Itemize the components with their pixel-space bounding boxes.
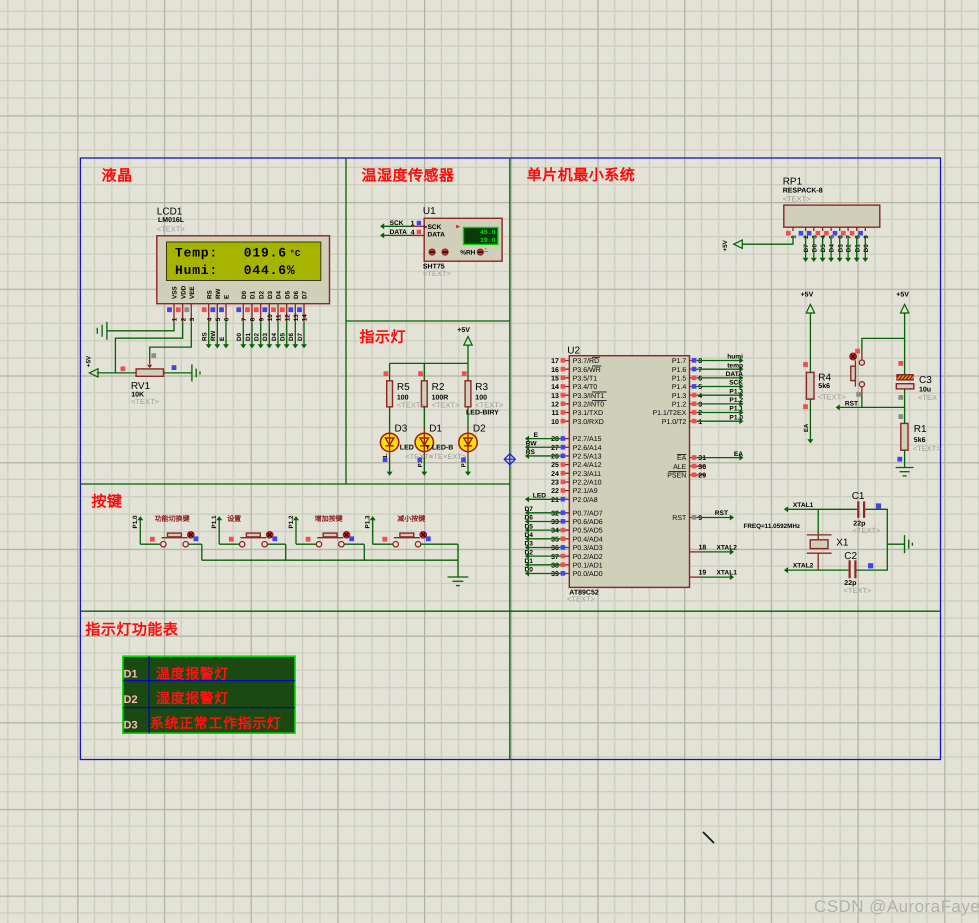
svg-text:4: 4 (698, 393, 702, 400)
svg-text:D5: D5 (525, 523, 534, 530)
wire: D1 cathode down with arrow (417, 452, 427, 476)
wire: LCD pin1 VSS to ground (107, 322, 174, 331)
svg-text:28: 28 (551, 436, 559, 443)
svg-text:D4: D4 (276, 290, 283, 299)
table row D1 temperature alarm (124, 666, 230, 682)
svg-text:D7: D7 (302, 290, 309, 299)
svg-text:26: 26 (551, 454, 559, 461)
wire: +5V to RV1 pin1 (97, 372, 136, 374)
svg-text:D1: D1 (124, 669, 138, 681)
svg-text:DATA: DATA (726, 371, 744, 378)
LED D2 (459, 433, 477, 451)
svg-text:7: 7 (698, 367, 702, 374)
svg-text:RS: RS (526, 449, 536, 456)
junction squares red above resistors (384, 371, 467, 376)
svg-text:系统正常工作指示灯: 系统正常工作指示灯 (150, 715, 281, 731)
svg-text:D3: D3 (395, 423, 408, 434)
svg-text:单片机最小系统: 单片机最小系统 (527, 166, 636, 184)
svg-text:ALE: ALE (673, 464, 687, 471)
svg-text:R2: R2 (432, 382, 445, 393)
svg-text:14: 14 (551, 384, 559, 391)
svg-text:E: E (219, 337, 226, 341)
svg-text:24: 24 (551, 471, 559, 478)
ground symbol right of crystal (right facing) (905, 535, 913, 553)
LCD pin name labels (rotated) VSS..D7 (172, 285, 309, 299)
wire: button 4 right terminal to ground bus drop (421, 544, 458, 560)
svg-text:R5: R5 (397, 382, 410, 393)
svg-text:P2.0/A8: P2.0/A8 (573, 496, 598, 504)
svg-text:1: 1 (791, 235, 798, 239)
svg-text:22: 22 (551, 488, 559, 495)
svg-text:RW: RW (210, 331, 217, 341)
svg-text:P1.1: P1.1 (729, 406, 743, 413)
button 2 actuator red circle (266, 532, 273, 539)
sensor mini display (464, 228, 498, 245)
svg-text:11: 11 (276, 314, 283, 321)
RP1 pin numbers 1-9 (rotated) (791, 235, 870, 239)
resistor R2 body (421, 381, 427, 407)
svg-text:humi: humi (727, 354, 743, 361)
svg-text:指示灯: 指示灯 (360, 329, 407, 346)
sensor screw circle 3 (477, 248, 488, 255)
junction square blue right of button 4 (426, 536, 431, 541)
LCD pin stubs 1-14 (174, 304, 304, 323)
ground symbol for buttons (448, 577, 469, 586)
wire: C1 right to corner down to C2 corner (857, 509, 888, 570)
wire: button 2 right terminal to ground bus drop (267, 544, 285, 560)
wire: D3 cathode down with arrow (382, 452, 392, 476)
svg-text:P0.2/AD2: P0.2/AD2 (573, 553, 603, 561)
MCU XTAL2 pin 18 with wire and net label (690, 544, 738, 555)
junction square red at RV1 left (121, 366, 126, 371)
svg-text:36: 36 (551, 545, 559, 552)
svg-text:7: 7 (241, 317, 248, 321)
C3 labels (918, 375, 937, 402)
junction square blue below D2 (461, 457, 466, 462)
svg-text:RS: RS (202, 332, 209, 341)
svg-text:17: 17 (551, 358, 559, 365)
junction square blue right of button 3 (349, 536, 354, 541)
wire: R3 to LED D2 (467, 407, 469, 434)
svg-text:29: 29 (698, 473, 706, 480)
svg-text:P3.2/INT0: P3.2/INT0 (573, 400, 605, 408)
svg-text:D5: D5 (280, 332, 287, 341)
svg-text:液晶: 液晶 (102, 168, 133, 185)
svg-text:D7: D7 (525, 506, 534, 513)
svg-text:功能切换键: 功能切换键 (155, 514, 190, 523)
svg-text:D2: D2 (254, 332, 261, 341)
svg-text:2: 2 (803, 235, 810, 239)
wire: LCD pin3 VEE to RV1 wiper (150, 322, 192, 358)
svg-text:E: E (534, 432, 539, 439)
svg-text:增加按键: 增加按键 (315, 514, 343, 523)
svg-text:VSS: VSS (172, 286, 179, 299)
svg-text:EA: EA (677, 455, 687, 462)
svg-text:P3.0/RXD: P3.0/RXD (573, 418, 604, 426)
push button 2 (240, 533, 268, 547)
svg-text:15: 15 (551, 375, 559, 382)
svg-text:P3.4/T0: P3.4/T0 (573, 383, 598, 391)
wire: button 1 right terminal to ground bus drop (188, 544, 201, 560)
button key 2 net P1.1 rotated label and wire arrow up (211, 515, 222, 544)
polarized capacitor C3 (896, 374, 914, 389)
svg-text:LED: LED (400, 445, 414, 452)
svg-text:Temp: 019.6: Temp: 019.6 (175, 246, 287, 261)
svg-text:45.0: 45.0 (480, 229, 496, 236)
sensor pointer mark (456, 225, 460, 229)
svg-text:P1.2: P1.2 (729, 397, 743, 404)
svg-text:XTAL2: XTAL2 (793, 563, 814, 570)
LCD green screen (167, 242, 321, 281)
svg-text:EA: EA (734, 451, 743, 458)
sensor pin DATA stub and wire with arrow (380, 232, 424, 238)
svg-text:5: 5 (215, 317, 222, 321)
svg-text:+5V: +5V (896, 292, 909, 299)
wire: branch to reset button top (862, 338, 905, 359)
resistor R5 body (387, 381, 393, 407)
svg-text:D6: D6 (288, 332, 295, 341)
svg-text:12: 12 (551, 401, 559, 408)
svg-text:16: 16 (551, 367, 559, 374)
svg-text:P1.0: P1.0 (132, 515, 139, 528)
svg-text:SCK: SCK (729, 380, 743, 387)
junction square blue below D1 (418, 457, 423, 462)
svg-text:RST: RST (672, 515, 687, 522)
wire: RV1 pin3 to ground (164, 372, 192, 374)
MCU left pins P2.0-P2.7 stubs, squares, numbers and labels (551, 435, 602, 504)
svg-text:温湿度传感器: 温湿度传感器 (362, 167, 456, 185)
svg-text:P3.6/WR: P3.6/WR (573, 366, 601, 374)
power +5V arrow above R4 (801, 292, 815, 313)
svg-text:D7: D7 (803, 244, 810, 253)
svg-text:P0.4/AD4: P0.4/AD4 (573, 535, 603, 543)
svg-text:13: 13 (551, 393, 559, 400)
junction square gray below C3 (898, 395, 903, 400)
svg-text:P2.5/A13: P2.5/A13 (573, 453, 602, 461)
svg-text:13: 13 (293, 314, 300, 322)
svg-text:D0: D0 (863, 244, 870, 253)
svg-text:37: 37 (551, 554, 559, 561)
svg-text:<TEXT>: <TEXT> (131, 397, 160, 406)
svg-text:6: 6 (698, 375, 702, 382)
svg-text:33: 33 (551, 519, 559, 526)
svg-text:D1: D1 (854, 244, 861, 253)
svg-text:1: 1 (411, 221, 415, 228)
svg-text:VDD: VDD (180, 285, 187, 299)
button 4 actuator red circle (420, 532, 427, 539)
RP1 pin stubs and squares (786, 227, 865, 235)
junction square red at sensor DATA (417, 230, 421, 234)
junction square red left of button 1 (150, 537, 155, 542)
svg-text:25: 25 (551, 462, 559, 469)
svg-text:3: 3 (698, 401, 702, 408)
mouse cursor mark (703, 832, 714, 843)
svg-text:LED: LED (533, 492, 546, 499)
svg-text:D1: D1 (525, 558, 534, 565)
net labels RS RW E D0-D7 (rotated) (202, 331, 304, 341)
svg-text:8: 8 (854, 235, 861, 239)
svg-text:<TEXT>: <TEXT> (397, 401, 426, 410)
svg-text:LM016L: LM016L (158, 217, 185, 224)
LED D3 (380, 433, 398, 451)
svg-text:P2.3/A11: P2.3/A11 (573, 470, 601, 478)
junction square red left of button 3 (306, 537, 311, 542)
svg-text:19: 19 (699, 570, 707, 577)
LCD pin state squares (167, 307, 302, 312)
junction square blue below D3 (383, 457, 388, 462)
svg-text:RP1: RP1 (783, 177, 803, 188)
svg-text:12: 12 (284, 314, 291, 322)
table row D2 humidity alarm (124, 690, 230, 706)
junction square gray above R1 (898, 414, 903, 419)
svg-text:35: 35 (551, 536, 559, 543)
button key 3 net P1.2 rotated label and wire arrow up (288, 515, 299, 544)
svg-text:39: 39 (551, 571, 559, 578)
svg-text:5: 5 (829, 235, 836, 239)
R1 labels (913, 424, 942, 453)
LED property text placeholders (405, 452, 467, 461)
svg-text:8: 8 (698, 358, 702, 365)
resistor R4 body (806, 372, 814, 399)
table 指示灯功能表 background and green border (123, 656, 295, 733)
svg-text:EA: EA (803, 423, 810, 432)
svg-text:P1.1/T2EX: P1.1/T2EX (652, 409, 686, 417)
svg-text:3: 3 (811, 235, 818, 239)
MCU PSEN pin 29 (667, 472, 706, 480)
crystal X1 (807, 535, 832, 570)
MCU U2 AT89C52 body (569, 356, 689, 588)
svg-text:<TEXT>: <TEXT> (818, 392, 847, 401)
svg-text:湿度报警灯: 湿度报警灯 (156, 690, 229, 706)
svg-text:14: 14 (302, 314, 309, 322)
resistor pack RP1 body (784, 205, 880, 227)
svg-text:<TEXT>: <TEXT> (475, 401, 504, 410)
svg-text:+5V: +5V (801, 292, 814, 299)
junction square red at reset button (855, 349, 860, 354)
ground symbol below R1 (896, 468, 914, 476)
svg-text:P1.3: P1.3 (672, 393, 687, 400)
svg-text:RST: RST (845, 400, 858, 407)
svg-text:P1.2: P1.2 (288, 515, 295, 528)
junction square blue right of button 1 (194, 536, 199, 541)
C1 labels (852, 491, 881, 535)
wire: C3 bottom through RST node to R1 (904, 389, 906, 424)
svg-text:27: 27 (551, 445, 559, 452)
junction square blue below R1 (897, 457, 902, 462)
wire: XTAL1 net with arrow to C1 (784, 506, 857, 512)
svg-text:9: 9 (258, 317, 265, 321)
svg-text:D2: D2 (846, 244, 853, 253)
wire: R2 to LED D1 (423, 407, 425, 434)
svg-text:设置: 设置 (227, 515, 241, 523)
svg-text:23: 23 (551, 480, 559, 487)
svg-text:+5V: +5V (722, 239, 729, 251)
svg-text:D6: D6 (525, 515, 534, 522)
svg-text:D2: D2 (124, 694, 138, 706)
wires: RP1 pins 2-9 to down arrows (803, 236, 869, 263)
svg-text:P0.6/AD6: P0.6/AD6 (573, 518, 603, 526)
svg-text:D1: D1 (250, 290, 257, 299)
sensor U1 SHT75 body (424, 218, 502, 261)
svg-text:D0: D0 (525, 567, 534, 574)
svg-text:D4: D4 (525, 532, 534, 539)
section divider vertical between sensor and MCU areas (509, 158, 511, 760)
svg-text:RW: RW (526, 440, 538, 447)
ground symbol at LCD VSS (left facing) (97, 322, 107, 340)
section divider vertical between LCD and sensor areas (345, 158, 347, 484)
svg-text:指示灯功能表: 指示灯功能表 (85, 622, 179, 639)
svg-text:减小按键: 减小按键 (397, 514, 425, 523)
wire: D2 cathode down with arrow (461, 452, 471, 476)
R4 labels (818, 373, 847, 402)
wire: RST net horizontal with arrow (836, 404, 905, 410)
svg-text:temp: temp (727, 362, 743, 369)
wire: button 3 right terminal to ground bus drop (344, 544, 364, 560)
svg-text:Y LED-B: Y LED-B (425, 445, 453, 452)
svg-text:<TEXT>: <TEXT> (783, 194, 812, 203)
junction square red above C3 (898, 361, 903, 366)
svg-text:P1.3: P1.3 (729, 388, 743, 395)
svg-text:P1.7: P1.7 (672, 358, 687, 365)
svg-text:温度报警灯: 温度报警灯 (156, 666, 229, 682)
svg-text:D3: D3 (267, 290, 274, 299)
svg-text:<TEXT>: <TEXT> (844, 586, 873, 595)
sensor screw circle 1 (429, 249, 435, 255)
svg-text:D2: D2 (525, 549, 534, 556)
svg-text:U1: U1 (423, 206, 436, 217)
svg-text:C1: C1 (852, 491, 865, 502)
svg-text:U2: U2 (567, 346, 580, 357)
origin marker (blue diamond) on divider wire (504, 454, 515, 465)
svg-text:5: 5 (698, 384, 702, 391)
svg-text:10: 10 (551, 419, 559, 426)
svg-text:2: 2 (180, 317, 187, 321)
svg-text:SCK: SCK (390, 220, 404, 227)
svg-text:4: 4 (820, 235, 827, 239)
svg-text:4: 4 (206, 317, 213, 321)
sensor DATA pin label and number (390, 229, 415, 237)
junction square blue at sensor SCK (417, 221, 421, 225)
table blue grid lines (123, 656, 295, 733)
svg-text:<TEXT>: <TEXT> (913, 444, 942, 453)
svg-text:CSDN @AuroraFaye: CSDN @AuroraFaye (814, 897, 979, 916)
svg-text:X1: X1 (836, 538, 849, 549)
junction square blue at C2 (868, 563, 873, 568)
svg-text:1: 1 (698, 419, 702, 426)
wire: bus drop to R5 (389, 363, 391, 380)
sensor pin SCK stub and wire with arrow (380, 223, 424, 229)
svg-text:31: 31 (698, 455, 706, 462)
svg-text:D3: D3 (124, 720, 138, 732)
svg-text:D4: D4 (829, 244, 836, 253)
svg-text:3: 3 (189, 317, 196, 321)
svg-text:RW: RW (215, 289, 222, 299)
table row D3 system working indicator (124, 715, 282, 732)
wire: P1.0 to button 1 left terminal (140, 543, 160, 545)
C2 labels (844, 551, 873, 595)
svg-text:P2.1/A9: P2.1/A9 (573, 487, 598, 495)
sensor screw circle 2 (442, 249, 448, 255)
svg-text:2: 2 (698, 410, 702, 417)
svg-text:D2: D2 (258, 290, 265, 299)
wire: R1 to ground (904, 450, 906, 467)
capacitor C1 (858, 501, 864, 517)
wires: E RW RS LED nets into MCU P2 pins (525, 432, 561, 502)
svg-text:1: 1 (172, 317, 179, 321)
svg-text:D7: D7 (297, 332, 304, 341)
wire: buttons common ground bus (202, 559, 458, 561)
svg-text:°C: °C (290, 249, 301, 259)
svg-text:E: E (224, 295, 231, 299)
junction square blue at C1 (876, 503, 881, 508)
svg-text:D0: D0 (241, 290, 248, 299)
svg-text:D3: D3 (262, 332, 269, 341)
svg-text:30: 30 (698, 464, 706, 471)
MCU ALE pin 30 (673, 464, 706, 471)
svg-text:P0.0/AD0: P0.0/AD0 (573, 570, 603, 578)
MCU left pins P3.0-P3.7 stubs, squares, numbers and labels (551, 357, 606, 426)
svg-text:P0.7/AD7: P0.7/AD7 (573, 509, 603, 517)
svg-text:D1: D1 (245, 332, 252, 341)
LCD pin numbers 1-14 (rotated) (172, 314, 309, 322)
power +5V arrow at RP1 (722, 239, 742, 251)
svg-text:XTAL1: XTAL1 (717, 570, 738, 577)
button 3 actuator red circle (343, 532, 350, 539)
R5 labels (397, 382, 426, 410)
svg-text:FREQ=11.0592MHz: FREQ=11.0592MHz (744, 523, 801, 530)
svg-text:P0.5/AD5: P0.5/AD5 (573, 527, 603, 535)
reset button actuator red circle (850, 353, 857, 360)
junction square gray below reset button (856, 392, 861, 397)
svg-text:Humi: 044.6%: Humi: 044.6% (175, 263, 295, 278)
svg-text:18: 18 (699, 544, 707, 551)
svg-text:D3: D3 (525, 541, 534, 548)
section divider horizontal above table area (80, 610, 940, 612)
svg-text:DATA: DATA (428, 231, 446, 238)
svg-text:C3: C3 (919, 375, 932, 386)
button key 4 net P1.3 rotated label and wire arrow up (365, 515, 376, 544)
svg-text:DATA: DATA (390, 229, 408, 236)
svg-text:XTAL1: XTAL1 (793, 502, 814, 509)
svg-text:P2.7/A15: P2.7/A15 (573, 435, 602, 443)
svg-text:6: 6 (837, 235, 844, 239)
section divider horizontal between sensor and indicator areas (346, 320, 510, 322)
wires: LCD data/control pins to down arrows (206, 322, 307, 348)
junction square red left of button 4 (382, 537, 387, 542)
resistor R3 body (465, 381, 471, 407)
wire: bus down to ground (457, 560, 459, 577)
wire: XTAL2 net with arrow to C2 (784, 567, 848, 573)
svg-text:P1.3: P1.3 (365, 515, 372, 528)
LED D1 (415, 433, 433, 451)
R2 labels (432, 382, 461, 410)
svg-text:SCK: SCK (428, 224, 442, 231)
svg-text:P1.0: P1.0 (729, 414, 743, 421)
svg-text:D0: D0 (236, 332, 243, 341)
svg-text:19.0: 19.0 (480, 237, 496, 244)
svg-text:<TEXT>: <TEXT> (432, 401, 461, 410)
button key 1 net P1.0 rotated label and wire arrow up (132, 515, 143, 544)
power +5V arrow above C3 (896, 292, 909, 313)
svg-text:4: 4 (411, 230, 415, 237)
wire: LCD pin2 VDD to +5V rail (115, 322, 182, 373)
svg-text:P3.5/T1: P3.5/T1 (573, 374, 598, 382)
svg-text:32: 32 (551, 510, 559, 517)
svg-text:P0.3/AD3: P0.3/AD3 (573, 544, 603, 552)
wire: bus drop to R3 (467, 363, 469, 380)
junction square blue right of button 2 (272, 536, 277, 541)
svg-text:6: 6 (224, 317, 231, 321)
